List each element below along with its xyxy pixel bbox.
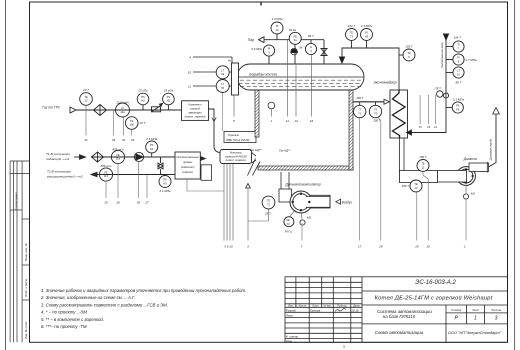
left margin stamp labels [14, 192, 28, 339]
blower fan circles [290, 191, 312, 213]
box: burner monitor [220, 150, 252, 164]
svg-text:Н3: Н3 [150, 147, 154, 151]
box: burner label [224, 132, 256, 143]
svg-text:PS: PS [167, 95, 171, 99]
notes text block [40, 288, 246, 329]
svg-text:2. Значения, изображенные на с: 2. Значения, изображенные на схеме см. .… [40, 295, 135, 300]
water dashes [239, 80, 363, 86]
supply down arrow [443, 34, 448, 40]
svg-text:ООО "НП"ЭнергоСтандарт": ООО "НП"ЭнергоСтандарт" [448, 330, 502, 335]
instrument PE 6a [289, 32, 301, 44]
svg-text:Н2: Н2 [141, 99, 145, 103]
filter F2 [92, 152, 104, 162]
signature squiggle [335, 309, 346, 312]
svg-text:25 кПа: 25 кПа [137, 88, 147, 92]
svg-text:ТЕ: ТЕ [414, 182, 418, 186]
wire to terminal 7 [301, 226, 303, 241]
svg-text:Пар: Пар [248, 38, 254, 42]
svg-text:Комплект: Комплект [189, 102, 203, 106]
instrument PS H2 [137, 93, 149, 105]
svg-text:М1: М1 [471, 192, 475, 196]
svg-text:28 Т: 28 Т [264, 212, 271, 216]
svg-text:28: 28 [136, 201, 141, 205]
svg-text:PI: PI [268, 47, 271, 51]
svg-text:LT: LT [457, 69, 460, 73]
svg-text:(комплект: (комплект [181, 165, 195, 169]
svg-text:на базе ПЛК110: на базе ПЛК110 [383, 314, 416, 319]
wire 4 [193, 56, 232, 58]
flame detector B1 [268, 102, 275, 109]
burner coupling rect [201, 165, 212, 181]
svg-text:3. Схему рассматривать совмест: 3. Схему рассматривать совместно с разде… [41, 302, 168, 307]
svg-text:Орлова: Орлова [310, 309, 320, 313]
LT signal drops [222, 79, 224, 131]
svg-text:10.16: 10.16 [351, 309, 359, 313]
instrument PI 0.1 [452, 102, 463, 113]
instrument FI 14a flow [116, 103, 130, 117]
svg-text:Т2-В котельную: Т2-В котельную [47, 170, 72, 174]
svg-text:14а: 14а [120, 110, 125, 114]
drops 17 29 [360, 117, 381, 241]
svg-text:горелки): горелки) [182, 170, 193, 174]
svg-text:Барабан котла: Барабан котла [249, 73, 276, 77]
valve gas with lever [152, 107, 161, 112]
arrow T1 in [80, 155, 86, 159]
safety device dome [291, 49, 298, 52]
svg-text:ТЕ: ТЕ [130, 119, 134, 123]
chimney arrow [493, 108, 500, 115]
svg-text:18: 18 [415, 245, 419, 249]
wire from actuators box to burner wires [187, 179, 224, 191]
svg-text:TI: TI [457, 43, 460, 47]
svg-text:ТЕ: ТЕ [267, 199, 271, 203]
burner nozzle cone [252, 153, 257, 164]
box: actuators set [175, 152, 200, 179]
flue gas line furnace to economizer [353, 101, 384, 103]
wire gas main [76, 109, 182, 111]
svg-text:11а: 11а [116, 157, 121, 161]
svg-text:Горелка:: Горелка: [228, 133, 239, 137]
svg-text:180 Т: 180 Т [419, 155, 427, 159]
feed instrument signal stubs [420, 95, 435, 124]
furnace air sample arrow [246, 184, 251, 189]
drum tap stubs 12 13 16 [288, 40, 312, 117]
svg-text:5б: 5б [221, 86, 224, 90]
svg-text:LТ: LТ [221, 69, 224, 73]
svg-text:180 Т: 180 Т [402, 184, 410, 188]
svg-text:PI: PI [457, 56, 460, 60]
instrument TT71 [354, 102, 382, 118]
svg-text:Питательная вода: Питательная вода [440, 42, 444, 68]
svg-text:подающий —т1: подающий —т1 [46, 157, 70, 161]
svg-text:Листов: Листов [490, 308, 501, 312]
instrument TE11 flue [417, 160, 429, 172]
svg-text:ТЕ: ТЕ [350, 31, 354, 35]
arrow on gas down-pipe [212, 118, 216, 122]
motor M2 [300, 220, 305, 225]
instrument TE12 gas temp [80, 93, 93, 106]
svg-text:27: 27 [144, 201, 149, 205]
svg-text:78 Гц: 78 Гц [284, 230, 292, 234]
svg-text:Кол.уч: Кол.уч [299, 305, 307, 308]
svg-text:ЛЗ***: ЛЗ*** [434, 87, 443, 91]
box: gas valves set [182, 101, 209, 121]
svg-text:3: 3 [495, 315, 498, 321]
svg-text:(компл. горелки): (компл. горелки) [185, 114, 206, 118]
svg-text:PS: PS [141, 95, 145, 99]
svg-text:24: 24 [130, 138, 135, 142]
svg-text:PS: PS [163, 178, 167, 182]
burner monitor wires [224, 164, 233, 241]
svg-text:6. ***– по проекту -ТМ.: 6. ***– по проекту -ТМ. [41, 324, 88, 329]
wire gas to burner [209, 109, 221, 153]
top format tick [260, 2, 262, 6]
pump P1 [134, 152, 143, 161]
svg-text:2: 2 [463, 245, 466, 249]
svg-text:Дымосос: Дымосос [463, 157, 478, 161]
svg-text:PS: PS [456, 104, 460, 108]
bypass valves [160, 157, 162, 163]
svg-text:Н3: Н3 [163, 181, 167, 185]
svg-text:Газ от ГРУ: Газ от ГРУ [42, 106, 61, 110]
wire T2 [91, 174, 175, 176]
svg-text:Подпись: Подпись [337, 305, 348, 308]
svg-text:арматуры: арматуры [188, 111, 201, 114]
svg-text:1.3 МПа: 1.3 МПа [272, 17, 283, 21]
svg-text:FI: FI [121, 106, 124, 110]
svg-text:Дата: Дата [352, 305, 360, 308]
paper left edge [5, 0, 7, 350]
svg-text:Стадия: Стадия [451, 308, 462, 312]
svg-text:32: 32 [122, 138, 126, 142]
svg-text:Взам. инв. №: Взам. инв. № [24, 242, 28, 261]
filter F1 [94, 105, 107, 116]
arrow into drum [339, 57, 344, 63]
wire to terminal 2 [465, 199, 467, 240]
svg-text:Дымовая труба: Дымовая труба [489, 138, 493, 161]
svg-text:ТЕ: ТЕ [407, 51, 411, 55]
svg-text:80 Т: 80 Т [456, 81, 462, 85]
svg-text:11: 11 [188, 85, 191, 89]
svg-text:12: 12 [286, 119, 290, 123]
svg-text:31: 31 [84, 138, 88, 142]
svg-text:Лист: Лист [471, 308, 480, 312]
exhauster outlet duct [469, 163, 489, 172]
blower outlet duct [301, 195, 330, 208]
svg-text:4. * – по проекту ..-ЭМ: 4. * – по проекту ..-ЭМ [41, 310, 87, 315]
exhauster fan circles [457, 167, 476, 186]
arrow into burner unit [200, 156, 206, 161]
svg-text:17: 17 [358, 245, 362, 249]
svg-text:ТS: ТS [374, 108, 378, 112]
instrument LT feed [453, 67, 464, 78]
svg-text:№ док.: № док. [323, 305, 331, 308]
drum riser [294, 40, 296, 64]
svg-text:25 кПа: 25 кПа [163, 88, 173, 92]
svg-text:2.7 МПа: 2.7 МПа [465, 58, 477, 62]
svg-text:газовой: газовой [190, 106, 200, 110]
svg-text:20 Т: 20 Т [82, 88, 89, 92]
blower inlet duct [279, 172, 292, 202]
svg-text:Н. контр.: Н. контр. [286, 334, 299, 338]
svg-text:PI: PI [365, 31, 368, 35]
svg-text:WBE 70/2-А ZM-NR: WBE 70/2-А ZM-NR [226, 138, 249, 142]
drops 18 20 [417, 172, 428, 241]
instrument PS H3b [159, 176, 171, 188]
left margin stamp table [10, 161, 29, 342]
wire 11 + instrument LT5b [193, 85, 216, 87]
svg-text:Схема автоматизации: Схема автоматизации [375, 330, 424, 335]
svg-text:103 Т: 103 Т [405, 44, 413, 48]
svg-text:Исполнительные: Исполнительные [176, 155, 199, 159]
instrument TE72 [262, 196, 275, 209]
instrument FE 11b [99, 168, 112, 181]
svg-text:Котел ДЕ-25-14ГМ с горелкой We: Котел ДЕ-25-14ГМ с горелкой Weishaupt [375, 295, 493, 302]
svg-text:Изм: Изм [288, 305, 293, 308]
svg-text:Газ НД**: Газ НД** [250, 148, 262, 152]
svg-text:PI: PI [276, 24, 279, 28]
svg-text:1.4 МПа: 1.4 МПа [361, 24, 372, 28]
svg-text:FE: FE [116, 153, 120, 157]
svg-text:РЕ: РЕ [293, 35, 297, 39]
instrument TE 103 [403, 49, 415, 61]
svg-text:LI: LI [310, 45, 312, 49]
title block texts [286, 279, 502, 343]
svg-text:104 Т: 104 Т [454, 36, 462, 40]
furnace right wall [349, 89, 353, 170]
svg-text:20 Т: 20 Т [139, 121, 146, 125]
svg-text:ТЕ: ТЕ [84, 95, 88, 99]
instrument PI 1.4 [361, 29, 373, 41]
instrument PI 1.3 [271, 22, 283, 34]
paper right edge [514, 0, 516, 350]
wire T1 [91, 156, 175, 158]
svg-text:Н3: Н3 [365, 34, 369, 38]
svg-text:Дутьевой вентилятор: Дутьевой вентилятор [284, 183, 320, 187]
air inlet arrow [336, 199, 341, 204]
svg-text:16: 16 [310, 119, 314, 123]
gas inlet arrow [70, 107, 76, 113]
arrow T2 out [91, 172, 97, 176]
svg-text:5 6 10: 5 6 10 [224, 245, 233, 249]
svg-text:Р6: Р6 [456, 107, 460, 111]
svg-text:0.1 МПа: 0.1 МПа [453, 98, 464, 102]
svg-text:ЭС-16-003-А.2: ЭС-16-003-А.2 [415, 279, 456, 286]
svg-text:Вк 6а: Вк 6а [289, 28, 296, 32]
svg-text:Лист: Лист [311, 305, 318, 308]
flue arrow [384, 99, 390, 104]
instrument TS73 [369, 105, 381, 117]
svg-text:26: 26 [115, 201, 120, 205]
column drain wire 8 [233, 95, 235, 117]
economizer coil [393, 90, 406, 138]
svg-text:Разраб.: Разраб. [286, 309, 297, 313]
instrument SE73 blower speed [284, 217, 294, 227]
wire 10 + instrument LT5a [193, 71, 216, 73]
wire steam header [264, 39, 324, 41]
svg-text:Подп. и дата: Подп. и дата [24, 279, 28, 297]
svg-text:Пров.: Пров. [286, 314, 294, 318]
instrument TE 102 [346, 29, 358, 41]
svg-text:29: 29 [378, 245, 383, 249]
burner mouth diagonals [248, 159, 261, 176]
svg-text:2.1 МПа: 2.1 МПа [159, 189, 171, 193]
motor M1 [463, 194, 468, 199]
svg-text:5. ** – в комплекте с горелкой: 5. ** – в комплекте с горелкой. [41, 317, 104, 322]
wire feed from economizer to drum [342, 48, 399, 90]
inlet arrow to economizer [407, 130, 412, 135]
control valve L3 [443, 93, 448, 98]
svg-text:Воздух: Воздух [342, 200, 353, 204]
instrument TE 15b [125, 117, 138, 130]
svg-text:15б: 15б [130, 123, 135, 127]
svg-text:806 кг/ч: 806 кг/ч [113, 148, 124, 152]
instrument PI feed [453, 54, 464, 65]
svg-text:Инв. № подл.: Инв. № подл. [24, 321, 28, 339]
svg-text:ТТ: ТТ [358, 108, 362, 112]
furnace bottom wall [258, 166, 353, 170]
instrument PS H3 [146, 141, 158, 153]
svg-text:(компл. горелки): (компл. горелки) [226, 158, 246, 162]
svg-text:Монитор: Монитор [230, 151, 242, 155]
svg-text:20: 20 [426, 245, 431, 249]
svg-text:96 Т: 96 Т [308, 34, 314, 38]
svg-text:13: 13 [294, 119, 298, 123]
water signal drops [106, 162, 147, 198]
svg-text:1312 м³/ч: 1312 м³/ч [116, 100, 129, 104]
svg-text:2.5 МПа: 2.5 МПа [145, 137, 157, 141]
svg-text:Газ НД**: Газ НД** [279, 149, 291, 153]
instrument PS H2b [163, 93, 175, 105]
svg-text:FE: FE [104, 171, 108, 175]
instrument PI 0.9 [263, 45, 274, 56]
svg-text:0.9 МПа: 0.9 МПа [251, 47, 262, 51]
svg-text:11б: 11б [104, 174, 109, 178]
wire feed supply [412, 40, 447, 133]
svg-text:806 кг/ч: 806 кг/ч [101, 164, 112, 168]
wire to terminal 3 [248, 188, 269, 241]
svg-text:М2: М2 [307, 216, 311, 220]
svg-text:PS: PS [150, 143, 154, 147]
svg-text:органы: органы [183, 161, 192, 164]
instrument LI 4 [305, 43, 316, 54]
svg-text:21: 21 [433, 125, 437, 129]
furnace left wall [255, 89, 259, 137]
svg-text:1. Значение рабочих и аварийны: 1. Значение рабочих и аварийных параметр… [41, 288, 246, 293]
svg-text:Согласовано: Согласовано [14, 192, 18, 210]
svg-text:1: 1 [474, 315, 477, 321]
svg-text:горения W-FM100: горения W-FM100 [225, 154, 247, 158]
svg-text:Т1-В котельную: Т1-В котельную [46, 152, 71, 156]
svg-text:Экономайзер: Экономайзер [373, 81, 397, 85]
instrument FE 11a [111, 150, 124, 163]
svg-text:LТ: LТ [221, 82, 224, 86]
svg-text:102 Т: 102 Т [348, 24, 356, 28]
svg-text:Утв.: Утв. [286, 339, 293, 343]
exhauster inlet duct [438, 171, 467, 183]
svg-text:10: 10 [188, 71, 192, 75]
instrument TI feed [453, 41, 464, 52]
svg-text:SЕ: SЕ [286, 218, 290, 222]
svg-text:300 Т: 300 Т [356, 96, 364, 100]
instrument TE12 flue [410, 180, 422, 192]
title block [285, 277, 508, 343]
svg-text:25: 25 [103, 201, 108, 205]
valve on drum return [323, 40, 325, 64]
svg-text:ТЕ: ТЕ [421, 162, 425, 166]
svg-text:Н2: Н2 [167, 99, 171, 103]
svg-text:33: 33 [112, 138, 116, 142]
svg-text:рециркуляционный —т2: рециркуляционный —т2 [46, 174, 83, 178]
gas instrument signal drops [86, 105, 132, 135]
